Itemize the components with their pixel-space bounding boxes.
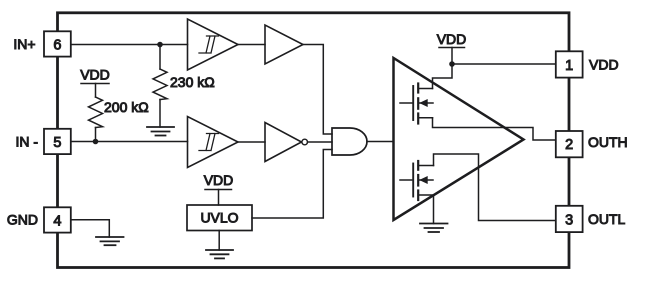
ground under UVLO bbox=[206, 250, 233, 258]
wire U3 out to inverter U4 bbox=[238, 141, 265, 143]
svg-text:IN -: IN - bbox=[15, 134, 38, 150]
pin 1 square bbox=[556, 51, 583, 77]
wire VDD node to pin 1 bbox=[452, 63, 556, 65]
wire 230k resistor top lead bbox=[159, 45, 161, 70]
node A junction dot on IN+ line bbox=[157, 42, 163, 48]
wire UVLO to ground bbox=[218, 231, 220, 251]
svg-text:VDD: VDD bbox=[437, 31, 467, 47]
label OUTH pin 2 bbox=[588, 134, 628, 150]
wire 200k resistor bottom lead bbox=[95, 128, 97, 142]
svg-text:VDD: VDD bbox=[204, 172, 234, 188]
value label 230 kOhm bbox=[170, 74, 215, 90]
svg-text:GND: GND bbox=[7, 212, 38, 228]
svg-text:3: 3 bbox=[565, 212, 573, 228]
power symbol VDD left bbox=[80, 67, 110, 98]
wire Q1 drain to VDD node bbox=[433, 64, 453, 89]
transistor Q2 (low-side) bbox=[400, 161, 434, 200]
wire UVLO output to AND gate bottom input bbox=[252, 150, 332, 219]
svg-text:1: 1 bbox=[565, 58, 573, 74]
label OUTL pin 3 bbox=[588, 211, 626, 227]
svg-text:200 kΩ: 200 kΩ bbox=[104, 99, 149, 115]
pin 5 square bbox=[44, 129, 71, 154]
buffer U2 (upper) bbox=[265, 25, 303, 64]
svg-text:VDD: VDD bbox=[80, 67, 110, 83]
node B junction dot on IN- line bbox=[93, 139, 99, 145]
value label 200 kOhm bbox=[104, 99, 149, 115]
pin 6 square bbox=[44, 31, 71, 56]
svg-text:4: 4 bbox=[53, 213, 61, 229]
ground under driver triangle bbox=[420, 224, 448, 233]
wire Q1 source to pin 2 OUTH bbox=[433, 118, 557, 140]
svg-text:VDD: VDD bbox=[589, 57, 619, 73]
pin 2 square bbox=[556, 131, 583, 157]
wire U1 out to buffer U2 bbox=[238, 44, 265, 46]
wire 230k resistor bottom lead bbox=[159, 100, 161, 128]
svg-text:2: 2 bbox=[565, 137, 573, 153]
label IN- bbox=[15, 134, 38, 150]
wire Q2 drain to pin 3 OUTL bbox=[434, 154, 557, 221]
wire IN- from pin 5 to Schmitt input bbox=[71, 141, 188, 143]
label GND bbox=[7, 212, 38, 228]
wire GND pin 4 to ground bbox=[71, 220, 109, 237]
resistor R 200 kOhm bbox=[89, 97, 103, 128]
svg-text:6: 6 bbox=[53, 37, 61, 53]
schmitt trigger U1 (upper) bbox=[188, 19, 239, 70]
node VDD junction dot bbox=[449, 61, 455, 67]
ground under 230k resistor bbox=[147, 127, 174, 136]
UVLO block bbox=[187, 205, 252, 231]
inverter U4 (lower) bbox=[265, 123, 308, 162]
label VDD pin 1 bbox=[589, 57, 619, 73]
power symbol VDD above driver bbox=[437, 31, 467, 64]
svg-text:UVLO: UVLO bbox=[200, 210, 238, 226]
wire inverter out to AND gate middle input bbox=[308, 141, 333, 143]
svg-text:230 kΩ: 230 kΩ bbox=[170, 74, 215, 90]
power symbol VDD above UVLO bbox=[204, 172, 234, 205]
wire AND output to driver triangle bbox=[367, 141, 394, 143]
output driver triangle U6 bbox=[394, 58, 524, 220]
wire Q2 source to ground bbox=[433, 195, 435, 224]
schmitt trigger U3 (lower) bbox=[188, 117, 239, 168]
svg-text:5: 5 bbox=[53, 135, 61, 151]
ground at pin 4 bbox=[96, 237, 124, 245]
wire buffer U2 out to AND gate top input bbox=[303, 45, 332, 135]
svg-text:IN+: IN+ bbox=[13, 36, 35, 52]
wire IN+ from pin 6 to Schmitt input bbox=[71, 44, 188, 46]
AND gate U5 bbox=[332, 128, 367, 155]
pin 4 square bbox=[44, 207, 71, 232]
label IN+ bbox=[13, 36, 35, 52]
IC boundary box bbox=[58, 13, 570, 268]
pin 3 square bbox=[556, 206, 583, 232]
svg-text:OUTL: OUTL bbox=[588, 211, 626, 227]
transistor Q1 (high-side) bbox=[400, 84, 433, 124]
resistor R 230 kOhm bbox=[153, 69, 167, 100]
svg-text:OUTH: OUTH bbox=[588, 134, 628, 150]
